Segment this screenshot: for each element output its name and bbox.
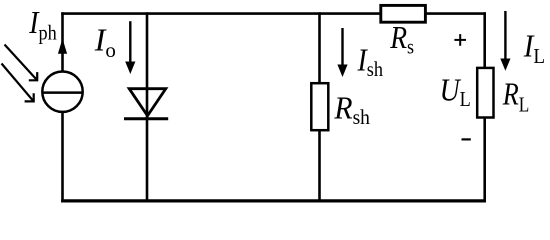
svg-text:RL: RL [502,77,529,117]
arrow I_o [125,21,135,74]
wire diode branch [146,12,149,202]
svg-text:Rs: Rs [389,20,414,59]
svg-text:Ish: Ish [357,43,384,82]
svg-text:Iph: Iph [28,5,57,45]
wire left lower [61,112,64,203]
wire R_sh upper [318,12,321,84]
wire R_sh lower [318,130,321,203]
arrow I_L [500,11,510,71]
label R_s [389,20,414,59]
wire top-right segment [425,12,486,15]
current source circle [42,72,82,112]
label U_L [440,73,471,111]
current source bar [42,91,82,94]
label R_L [502,77,529,117]
resistor R_s [381,5,426,22]
arrowhead I_ph [58,39,67,54]
label I_sh [357,43,384,82]
resistor R_sh [311,83,328,130]
wire top-left segment [61,12,381,15]
label R_sh [333,89,370,129]
diode D [129,89,166,116]
resistor R_L [477,68,493,118]
label I_L [523,28,545,68]
diode cathode bar [124,117,168,120]
svg-text:Rsh: Rsh [333,89,370,129]
svg-text:UL: UL [440,73,471,111]
light arrow 2 [2,64,34,102]
wire right upper [483,12,486,68]
arrow I_sh [337,28,347,77]
svg-text:IL: IL [523,28,545,68]
wire bottom [61,199,486,202]
label I_o [94,22,116,62]
plus sign [454,34,466,46]
minus sign [462,138,471,140]
wire left upper [61,12,64,72]
svg-text:Io: Io [94,22,116,62]
light arrow 1 [5,45,38,81]
wire right lower [483,117,486,202]
label I_ph [28,5,57,45]
